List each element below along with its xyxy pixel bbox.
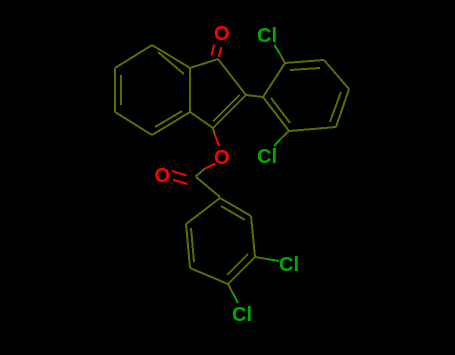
- olive half of bond D-Cl bottom: [228, 284, 233, 294]
- ketone C1=O double bond (red): [219, 47, 222, 57]
- double bond inner C6-C5: [120, 75, 122, 105]
- wire C7-C6: [115, 45, 152, 68]
- svg-text:O: O: [155, 165, 171, 187]
- wire C6-C5: [114, 68, 116, 112]
- wire Cester-ring ipso: [196, 177, 220, 197]
- wire B-C: [251, 216, 255, 257]
- wire C1-C2: [218, 59, 246, 95]
- green half of bond Cl right-C: [267, 259, 279, 261]
- olive upper part of bond C3-Oester: [213, 128, 215, 134]
- ester C=O double bond (red): [172, 171, 187, 175]
- svg-text:Cl: Cl: [257, 146, 277, 168]
- olive half of bond C-Cl right: [255, 257, 267, 259]
- svg-text:O: O: [214, 147, 230, 169]
- wire C5p-C6p: [289, 127, 336, 131]
- bond C2-ipso of dichlorophenyl: [246, 95, 263, 97]
- green half of bond Cl top-C2p: [275, 45, 281, 54]
- svg-text:O: O: [214, 23, 230, 45]
- double inner A-B: [221, 206, 245, 220]
- svg-text:Cl: Cl: [232, 304, 252, 326]
- wire C2p-C3p: [285, 60, 324, 63]
- wire C3a-C7a: [189, 68, 191, 112]
- wire C2-C3 double: [213, 95, 246, 128]
- double inner C6p-C1p: [271, 98, 290, 123]
- wire F-A: [186, 198, 220, 224]
- green half of bond Cl bottom-D: [233, 294, 238, 304]
- cyclopentenone ring: [190, 59, 246, 128]
- wire C3-C3a: [190, 112, 213, 128]
- svg-text:Cl: Cl: [279, 254, 299, 276]
- double inner C4p-C5p: [330, 92, 341, 122]
- svg-text:Cl: Cl: [257, 25, 277, 47]
- wire C5-C4: [115, 112, 152, 135]
- double inner C2p-C3p: [290, 68, 320, 70]
- double bond inner C7a-C7: [158, 52, 184, 74]
- wire C7a-C7: [152, 45, 190, 68]
- wire A-B: [220, 198, 251, 216]
- red lower part of bond C3-Oester: [215, 134, 219, 146]
- wire D-E: [190, 268, 228, 284]
- wire C1p-C2p: [263, 63, 285, 97]
- double inner E-F: [191, 228, 194, 262]
- 2,6-dichlorophenyl ring: [263, 60, 349, 131]
- olive half of bond C2p-Cl top: [280, 54, 285, 63]
- wire C4p-C5p: [336, 89, 349, 127]
- double bond inner C4-C3a: [155, 111, 182, 127]
- red half of bond Oester-Cester: [205, 164, 216, 169]
- wire C-D: [228, 257, 255, 284]
- wire C4-C3a: [152, 112, 190, 135]
- double inner C-D: [227, 254, 248, 275]
- olive half of bond C6p-Cl mid: [281, 131, 289, 139]
- olive half of bond Oester-Cester: [196, 169, 206, 177]
- wire C3p-C4p: [324, 60, 349, 89]
- wire E-F: [186, 224, 190, 268]
- wire C7a-C1: [190, 59, 218, 68]
- green half of bond Cl mid-C6p: [274, 139, 281, 147]
- benzo ring of indenone: [115, 45, 190, 135]
- 3,4-dichlorophenyl ring: [186, 198, 255, 284]
- wire C6p-C1p: [263, 97, 289, 131]
